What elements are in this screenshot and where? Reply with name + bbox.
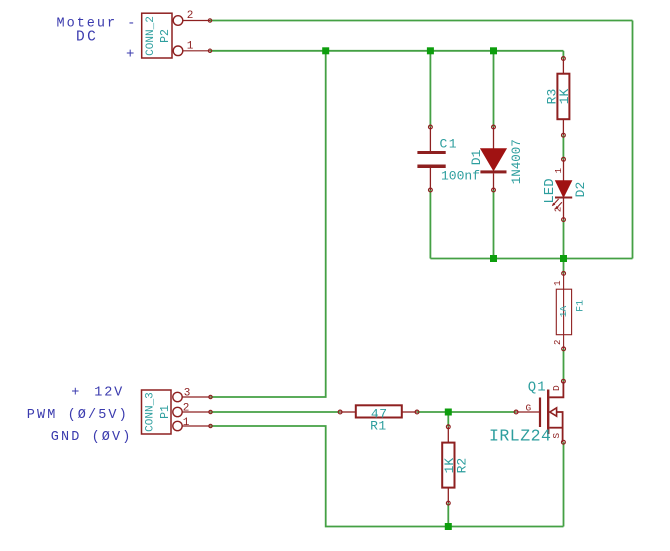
junction at +12V / D1	[490, 47, 497, 54]
svg-text:DC: DC	[76, 30, 98, 46]
svg-text:S: S	[551, 433, 562, 439]
svg-text:1: 1	[183, 417, 190, 429]
wire D1 top vertical	[493, 51, 495, 127]
svg-text:P1: P1	[159, 405, 172, 419]
svg-text:1: 1	[187, 40, 194, 52]
svg-text:CONN_2: CONN_2	[145, 16, 157, 56]
diode D1	[480, 125, 506, 192]
drain leg	[549, 381, 563, 397]
wire gate net: junction drop to R2	[447, 412, 449, 427]
svg-text:G: G	[526, 402, 532, 413]
P2 pin 2 circle	[173, 16, 183, 26]
svg-text:R2: R2	[454, 458, 469, 474]
junction at GND rail / R2	[445, 523, 452, 530]
connector P1 CONN_3	[142, 390, 173, 434]
wire net +12V : riser to P1 pin3	[211, 51, 326, 397]
wire gate net: R1 to Q1 gate	[417, 411, 516, 413]
P2 pin 2 end dot	[208, 19, 211, 22]
channel bar	[547, 390, 549, 435]
resistor R1	[338, 405, 419, 417]
svg-text:+: +	[126, 47, 134, 63]
resistor R3	[557, 57, 569, 138]
svg-text:F1: F1	[576, 300, 587, 312]
svg-text:2: 2	[553, 207, 563, 212]
svg-text:D1: D1	[469, 149, 484, 165]
svg-text:1: 1	[554, 168, 564, 173]
wire net Moteur- : right vertical	[632, 21, 634, 259]
svg-text:C1: C1	[440, 137, 458, 152]
junction at gate net / R2	[445, 409, 452, 416]
svg-text:+: +	[71, 386, 79, 401]
P2 pin 2 lead	[183, 20, 210, 22]
label Moteur - DC	[57, 17, 138, 46]
fuse F1	[556, 272, 571, 351]
P1 pin 2 circle	[173, 407, 182, 416]
wire F1 bottom to Q1 drain	[563, 349, 565, 381]
svg-text:2: 2	[183, 402, 190, 414]
P1 pin 3 end dot	[209, 395, 212, 398]
junction at +12V / C1	[427, 47, 434, 54]
wire GND net: P1 pin1 to bottom rail	[211, 426, 564, 527]
P1 pin 2 end dot	[209, 410, 212, 413]
svg-text:IRLZ24: IRLZ24	[489, 427, 551, 446]
wire C1 top vertical	[429, 51, 431, 127]
svg-text:12V: 12V	[94, 386, 124, 401]
svg-text:PWM (Ø/5V): PWM (Ø/5V)	[27, 408, 129, 423]
P2 pin 1 lead	[183, 50, 210, 52]
svg-text:LED: LED	[542, 178, 558, 203]
wire R3 bottom to LED D2 top	[562, 135, 564, 159]
P2 pin 1 circle	[173, 46, 183, 56]
wire GND net: R2 bottom drop	[447, 503, 449, 526]
svg-text:Q1: Q1	[528, 380, 547, 396]
junction at bottom rail / D1	[490, 255, 497, 262]
P1 pin 2 lead	[182, 411, 210, 413]
transistor Q1 MOSFET	[514, 379, 565, 444]
LED D2	[555, 157, 572, 221]
svg-text:1: 1	[553, 280, 563, 285]
wire net +12V : drop to R3	[562, 51, 564, 59]
wire net +12V : horizontal from P2 pin1	[210, 50, 563, 52]
P1 pin 3 circle	[173, 392, 182, 401]
svg-text:1N4007: 1N4007	[510, 139, 524, 184]
svg-text:R1: R1	[370, 419, 387, 434]
svg-text:1A: 1A	[558, 306, 569, 318]
connector P2 CONN_2	[142, 13, 173, 58]
P2 pin 1 end dot	[208, 49, 211, 52]
wire D1 bottom vertical	[493, 190, 495, 259]
source arrow	[550, 408, 557, 416]
junction at bottom rail / LED-F1	[560, 255, 567, 262]
gate bar	[539, 398, 541, 428]
D2 emission arrow b	[555, 202, 562, 209]
wire gate net: P1 pin2 to R1	[211, 411, 341, 413]
resistor R2	[442, 425, 454, 505]
junction at +12V / riser x=325.7	[322, 47, 329, 54]
D2 emission arrow a	[552, 199, 559, 206]
wire C1 bottom vertical	[429, 190, 431, 259]
capacitor C1	[417, 125, 445, 192]
gate lead	[514, 410, 518, 414]
wire net Moteur- : bottom horizontal	[430, 258, 632, 260]
svg-text:GND (ØV): GND (ØV)	[51, 430, 133, 445]
svg-text:3: 3	[184, 387, 191, 399]
svg-text:2: 2	[187, 10, 194, 22]
P1 pin 3 lead	[182, 396, 210, 398]
P1 pin 1 lead	[182, 425, 210, 427]
wire Q1 source drop	[563, 442, 565, 526]
source legs	[557, 412, 563, 442]
svg-text:100nf: 100nf	[441, 169, 480, 184]
svg-text:2: 2	[553, 340, 563, 345]
svg-text:P2: P2	[159, 29, 172, 43]
svg-text:CONN_3: CONN_3	[145, 392, 157, 432]
P1 pin 1 end dot	[209, 424, 212, 427]
svg-text:1K: 1K	[557, 89, 572, 105]
wire D2 bottom to F1 top vertical	[563, 220, 565, 274]
svg-text:D2: D2	[573, 182, 588, 198]
svg-text:D: D	[551, 385, 562, 391]
P1 pin 1 circle	[173, 421, 182, 430]
wire net Moteur- : top horizontal	[210, 20, 633, 22]
